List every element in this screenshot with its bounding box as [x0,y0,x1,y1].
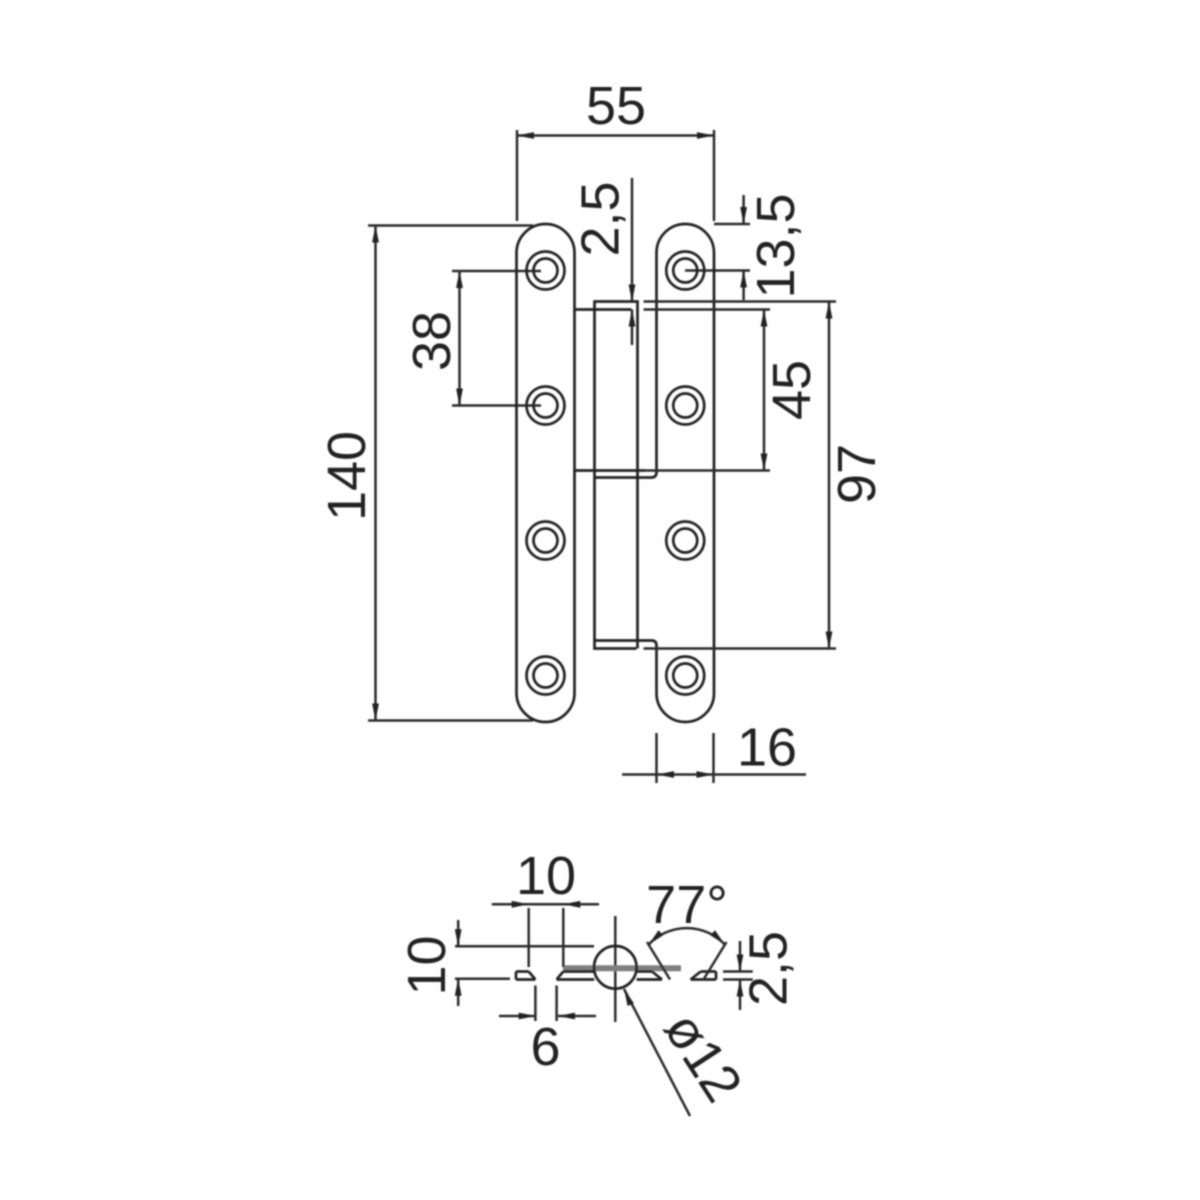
dimension 38 [402,271,541,406]
svg-text:55: 55 [586,76,646,136]
svg-text:2,5: 2,5 [571,181,631,256]
dimension 2,5 (knuckle clearance, top) [571,178,636,345]
dimension 6 (hole width) [499,986,596,1078]
dimension 77 degrees [646,875,728,980]
svg-text:97: 97 [827,444,887,504]
svg-text:2,5: 2,5 [739,931,799,1006]
svg-text:6: 6 [530,1017,560,1077]
screw holes right leaf [666,252,704,290]
svg-text:16: 16 [737,718,797,778]
svg-text:10: 10 [516,846,576,906]
svg-text:77°: 77° [646,875,728,935]
svg-text:140: 140 [317,431,377,521]
svg-text:13,5: 13,5 [746,193,806,298]
dimension 10 (vertical, left) [397,920,594,1006]
countersink right hole [652,972,662,980]
barrel joint lines [575,308,632,311]
dimension 45 [761,310,822,471]
dimension 16 [622,718,806,784]
extension lines (45/97) [644,300,837,303]
right leaf outline [595,224,714,722]
dimension 10 (countersink top width) [492,846,599,967]
bottom view: leaf plate section [516,972,716,980]
bottom view: pin centreline [614,916,617,1022]
dimension 13,5 [685,193,806,300]
svg-text:45: 45 [762,360,822,420]
svg-text:10: 10 [397,935,457,995]
dimension 2,5 (plate thickness) [723,931,799,1010]
countersink left hole [529,972,536,980]
knuckle barrel [575,302,646,649]
bottom view: upper leaf (grey band) [563,965,681,971]
left leaf outline [517,224,575,722]
dimension diameter 12 leader [624,989,754,1116]
svg-text:38: 38 [402,311,462,371]
dimension 55 [517,76,714,221]
bottom view: knuckle circle ø12 [594,946,637,989]
dimension 140 [317,226,533,721]
dimension 97 [826,302,887,649]
screw holes left leaf [527,252,565,290]
